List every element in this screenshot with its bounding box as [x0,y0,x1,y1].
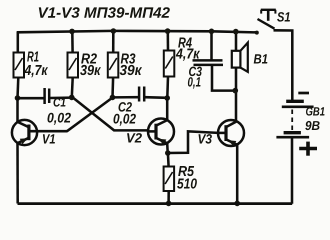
wire left rail upper segment [17,32,20,53]
resistor R2 [68,53,79,78]
wire R2 bottom [71,78,74,98]
wire top supply rail [17,31,257,33]
label S1 [277,12,290,22]
label R3 value 39к [120,53,143,75]
title label V1-V3 МП39-МП42 [39,7,170,18]
speaker B1 [232,43,248,72]
node R2 top junction [69,29,75,35]
resistor R4 [164,51,175,77]
wire V2 emitter down [166,143,169,153]
label battery plus [299,142,317,156]
wire battery to bottom rail [291,137,294,204]
label battery minus [298,92,309,95]
resistor R1 [14,53,25,78]
capacitor C2 [139,87,144,102]
wire R4 top [167,32,170,52]
wire V3 emitter down [236,145,239,204]
label R2 value 39к [80,53,101,75]
node R3 bottom junction [110,95,116,101]
node R4 top junction [165,28,171,34]
capacitor C1 [45,88,50,104]
wire R2 top [71,32,74,53]
label V2 [127,133,142,142]
battery GB1 [276,101,313,137]
wire cross-coupling diagonal R2 node to V2 base [72,97,149,131]
resistor R3 [108,53,119,78]
wire B1 top [235,32,238,51]
transistor V1 [12,120,37,145]
node V2 emitter junction [165,150,171,156]
wire V1 emitter down to bottom rail [16,143,19,204]
wire B1 bottom [235,68,238,91]
label B1 [254,54,268,63]
label V3 [199,134,212,144]
label C2 [114,102,136,126]
label R1 value 4,7к [24,52,48,78]
wire cross-coupling diagonal V1 base to R3 node [67,97,113,131]
wire V1 base horizontal [29,130,68,133]
wire R3 top [112,32,115,53]
wire bottom rail [18,202,293,205]
wire V2 collector [166,98,169,120]
wire R1 bottom to node [16,78,19,99]
wire R4 bottom to node [166,77,169,98]
transistor V3 [218,120,244,147]
wire R5 top [167,153,170,167]
wire V2 emitter to V3 base [168,131,218,153]
label V1 [43,134,55,143]
node R2 bottom junction [69,95,75,101]
capacitor C3 [193,60,224,65]
node V3 collector junction [233,88,239,94]
wire V3 collector up [235,91,238,122]
wire R5 bottom [167,191,170,204]
wire C3 top [210,32,213,61]
label GB1 value 9В [305,107,324,130]
node C3 top junction [209,29,215,35]
wire V1 collector up [16,98,19,122]
node B1 top junction [233,29,239,35]
wire R3 node to C2 [113,96,139,99]
resistor R5 [164,167,175,192]
node V3 emitter junction [234,201,240,207]
node R3 top junction [111,28,117,34]
wire C1 to R2 node [50,96,72,99]
wire node to C1 [18,97,44,100]
label R5 value 510 [177,166,197,189]
node V2 collector junction [164,95,170,101]
switch S1 [255,10,276,35]
transistor V2 [148,119,174,146]
wire C3 bottom to V3 collector node [212,65,236,91]
label C3 value 0,1 [188,67,202,89]
wire C2 to V2 collector node [145,96,167,99]
node V1 collector junction [15,95,21,101]
label C1 [48,98,71,125]
label R4 value 4,7к [176,38,200,61]
wire R3 bottom [111,78,114,98]
wire S1 to right column [274,30,293,101]
node R5 bottom junction [166,201,172,207]
